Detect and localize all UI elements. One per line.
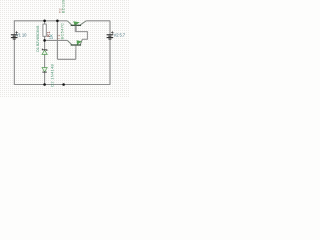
svg-text:D1 BZV85C6V8: D1 BZV85C6V8 <box>35 26 40 52</box>
svg-text:BC547C: BC547C <box>59 23 64 40</box>
battery V2 <box>107 35 114 39</box>
battery V1 <box>11 35 18 39</box>
wire left vertical lower (V1 - lead) <box>13 39 15 84</box>
wire node A horizontal (R1 bottom to T1) <box>45 39 68 41</box>
battery V2 plus sign <box>111 31 113 33</box>
svg-text:BD139: BD139 <box>61 0 66 13</box>
wire D1 zener top lead <box>44 40 46 49</box>
svg-text:V2 5.7: V2 5.7 <box>114 33 126 38</box>
svg-text:1k: 1k <box>49 34 54 40</box>
wire top rail left segment <box>14 20 68 22</box>
svg-text:V1 10: V1 10 <box>16 33 27 38</box>
transistor T1 BC547C <box>67 39 82 50</box>
resistor R1 <box>43 24 46 36</box>
wire top rail right segment <box>86 20 110 22</box>
wire bottom rail <box>14 84 111 86</box>
node junction dot bottom rail at D2 <box>43 83 46 86</box>
transistor T2 BD139 <box>67 21 86 32</box>
battery V1 plus sign <box>15 31 17 33</box>
wire R1 bottom lead <box>44 36 46 40</box>
wire R1 top lead <box>44 21 46 24</box>
wire T2 base lead <box>76 26 88 39</box>
node junction dot top rail at branch <box>56 20 59 23</box>
node junction dot top rail at R1 <box>43 20 46 23</box>
wire vertical branch from top rail crossing to T1 base loop <box>56 21 58 60</box>
wire left vertical upper (V1 + lead) <box>13 21 15 35</box>
wire T1 base loop vertical up <box>75 46 77 60</box>
zener diode D1 <box>42 49 47 55</box>
diode D2 <box>42 68 47 73</box>
wire D1-D2 middle lead <box>44 54 46 67</box>
wire right vertical lower (V2 - lead) <box>109 39 111 84</box>
wire T1 base loop bottom <box>57 58 75 60</box>
svg-text:D2 1N4148: D2 1N4148 <box>49 64 54 87</box>
node junction dot R1 bottom <box>43 39 46 42</box>
wire right vertical upper (V2 + lead) <box>109 21 111 35</box>
wire D2 bottom lead <box>44 72 46 85</box>
node junction dot bottom rail right <box>62 83 65 86</box>
